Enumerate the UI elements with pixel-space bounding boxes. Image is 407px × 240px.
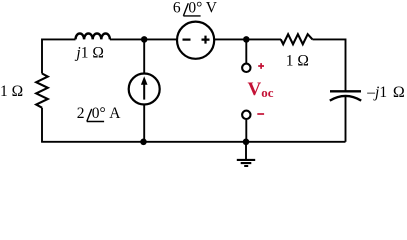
label 2 angle 0 A for current source [77, 105, 121, 122]
current source I1 circle [129, 74, 160, 105]
ground bars [237, 160, 255, 166]
wire resistor to top-right corner [313, 38, 346, 40]
label 6 angle 0 V for voltage source [173, 0, 218, 16]
wire current source to bottom [143, 105, 145, 142]
ground node junction dot [243, 139, 250, 146]
wire top-left segment [42, 38, 76, 40]
wire left vertical lower [41, 108, 43, 142]
svg-text:–j1: –j1 [366, 84, 387, 101]
resistor 1ohm left [36, 74, 48, 108]
svg-text:Voc: Voc [248, 79, 274, 100]
wire node B down to terminal a [245, 39, 247, 63]
red plus at terminal a [258, 63, 264, 69]
svg-text:j1 Ω: j1 Ω [74, 44, 103, 61]
angle slash and underline for 6/0 V [183, 3, 200, 16]
ground stub [245, 142, 247, 160]
wire voltage source to node B [214, 38, 281, 40]
wire bottom [41, 141, 345, 143]
bottom junction dot under current source [140, 139, 147, 146]
current source arrow [141, 76, 148, 99]
svg-text:0°: 0° [188, 0, 202, 16]
voltage source V1 circle [177, 22, 214, 59]
svg-text:0°: 0° [92, 105, 106, 122]
svg-text:1 Ω: 1 Ω [286, 52, 309, 69]
terminal a circle [242, 64, 250, 72]
svg-text:V: V [206, 0, 218, 16]
wire terminal b to bottom [245, 120, 247, 142]
red minus at terminal b [257, 113, 264, 115]
node A junction dot [141, 36, 148, 43]
capacitor C1 -j1ohm top plate [330, 90, 361, 92]
resistor 1ohm top right [281, 34, 313, 44]
wire right vertical lower [345, 97, 347, 142]
wire node A down to current source [143, 39, 145, 74]
voltage source minus sign [183, 38, 191, 40]
svg-text:1 Ω: 1 Ω [0, 83, 23, 100]
capacitor C1 curved plate [330, 96, 361, 101]
wire inductor to node A [110, 38, 177, 40]
svg-text:2: 2 [77, 105, 85, 122]
wire left vertical upper [41, 39, 43, 74]
voltage source plus sign [202, 36, 210, 44]
wire right vertical upper [345, 39, 347, 91]
svg-text:Ω: Ω [393, 84, 405, 101]
node B junction dot [243, 36, 250, 43]
terminal b circle [242, 111, 250, 119]
svg-text:A: A [109, 105, 121, 122]
svg-text:6: 6 [173, 0, 181, 16]
inductor L1 j1ohm [76, 34, 110, 40]
angle slash and underline for 2/0 A [87, 109, 104, 122]
